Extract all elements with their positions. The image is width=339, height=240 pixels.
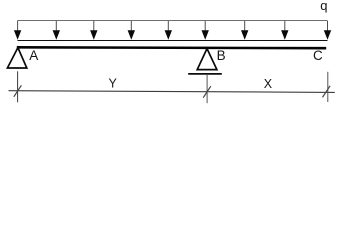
- load arrow 4: [128, 21, 135, 40]
- load baseline on beam: [18, 40, 328, 42]
- dimension line: [9, 91, 335, 93]
- dimension tick at B: [203, 86, 211, 98]
- load arrow 7: [241, 21, 248, 40]
- load arrow 1: [14, 21, 21, 40]
- extension line at B: [206, 75, 208, 103]
- dimension tick at C: [323, 86, 331, 98]
- dimension tick at A: [14, 85, 22, 97]
- support B ground line: [188, 73, 222, 75]
- svg-text:C: C: [313, 48, 323, 63]
- svg-text:X: X: [264, 77, 273, 91]
- load arrow 9: [324, 21, 331, 40]
- extension line at A: [17, 71, 19, 102]
- load arrow 5: [165, 21, 172, 40]
- svg-text:Y: Y: [109, 76, 118, 90]
- svg-text:q: q: [320, 0, 327, 13]
- distributed load q top line: [17, 20, 327, 22]
- support B (triangle): [197, 49, 217, 70]
- load arrow 6: [202, 21, 209, 40]
- beam: [17, 46, 326, 50]
- svg-text:A: A: [29, 48, 38, 63]
- load arrow 8: [281, 21, 288, 40]
- svg-text:B: B: [217, 48, 226, 63]
- load arrow 2: [53, 21, 60, 40]
- support A (pin triangle): [7, 48, 26, 68]
- load arrow 3: [90, 21, 97, 40]
- extension line at C: [327, 72, 329, 102]
